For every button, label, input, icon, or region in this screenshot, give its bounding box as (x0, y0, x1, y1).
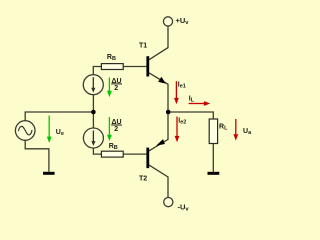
resistor RB (lower) (101, 151, 123, 157)
svg-text:T2: T2 (139, 176, 147, 183)
voltage source U2 (ΔU/2 lower) (83, 128, 103, 148)
node B (output node) (166, 110, 171, 115)
wire (92, 114, 94, 128)
svg-text:RL: RL (219, 124, 228, 132)
red arrow Ie2 (175, 117, 180, 143)
wire (93, 148, 101, 154)
terminal +Uv (163, 17, 172, 26)
wire (149, 26, 168, 60)
voltage source U1 (ΔU/2 upper) (83, 75, 103, 95)
ground (right) (208, 172, 220, 175)
wire (149, 114, 168, 151)
wire (25, 141, 49, 172)
svg-text:Ua: Ua (243, 128, 252, 136)
resistor RB (upper) (101, 64, 123, 70)
resistor RL (209, 119, 217, 144)
label ΔU/2 lower (111, 119, 122, 133)
svg-text:2: 2 (114, 85, 118, 92)
green arrow Ue (47, 116, 52, 144)
svg-text:2: 2 (114, 126, 118, 133)
svg-text:RB: RB (109, 143, 118, 151)
svg-text:T1: T1 (139, 42, 147, 49)
green arrow ΔU/2 lower (107, 117, 112, 141)
wire (149, 73, 168, 110)
transistor T1 (146, 56, 165, 83)
wire (149, 165, 168, 198)
red arrow Ie1 (174, 81, 179, 104)
wire (92, 95, 94, 110)
node A (input node) (91, 110, 96, 115)
AC source V1 (15, 121, 35, 141)
svg-text:RB: RB (107, 54, 116, 62)
wire (123, 66, 146, 68)
terminal -Uv (164, 198, 173, 207)
svg-text:Ue: Ue (56, 129, 64, 137)
svg-text:IL: IL (189, 95, 195, 103)
green arrow ΔU/2 upper (107, 78, 112, 98)
svg-text:Ie2: Ie2 (178, 118, 186, 126)
wire (168, 112, 213, 119)
ground (left) (43, 172, 55, 175)
red arrow IL (189, 101, 211, 106)
wire (25, 112, 92, 121)
wire (93, 67, 101, 75)
label ΔU/2 upper (111, 78, 122, 92)
wire (123, 153, 146, 155)
red arrow Ua (233, 119, 238, 141)
transistor T2 (146, 139, 165, 168)
wire (212, 144, 214, 172)
svg-text:Ie1: Ie1 (178, 81, 186, 89)
